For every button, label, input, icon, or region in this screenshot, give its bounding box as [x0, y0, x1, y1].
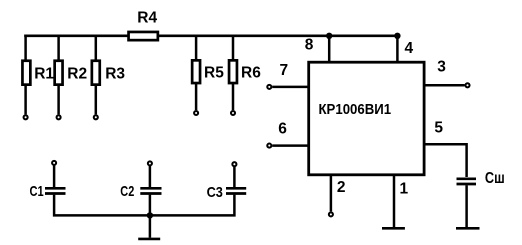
wire: ground drop — [149, 215, 152, 237]
ground bar: Cш — [456, 227, 480, 230]
svg-text:R3: R3 — [105, 66, 125, 83]
ground — [138, 238, 160, 241]
IC U1 КР1006ВИ1 (555 timer) — [309, 62, 424, 175]
terminal: open circle below R3 — [94, 115, 98, 119]
terminal: pin 6 — [267, 144, 271, 148]
svg-text:R5: R5 — [204, 64, 224, 81]
svg-text:R1: R1 — [34, 66, 54, 83]
wire: top supply rail — [24, 34, 397, 37]
pin 7 wire — [272, 86, 309, 89]
svg-text:5: 5 — [434, 120, 443, 137]
pin 4 wire (rail to IC top) — [396, 36, 399, 61]
terminal: pin 3 — [465, 83, 469, 87]
svg-text:4: 4 — [405, 40, 414, 57]
capacitor C2 — [140, 166, 161, 194]
terminal: pin 2 — [329, 212, 333, 216]
terminal: open circle below R1 — [24, 115, 28, 119]
terminal: C3 top — [232, 162, 236, 166]
resistor R6 — [229, 35, 237, 111]
svg-text:1: 1 — [400, 181, 409, 198]
svg-text:C1: C1 — [30, 183, 44, 200]
pin 3 wire — [424, 84, 464, 87]
pin 6 wire — [272, 144, 309, 147]
junction: pin 4 at rail end — [394, 33, 400, 39]
svg-text:8: 8 — [305, 36, 314, 53]
terminal: open circle below R5 — [194, 111, 198, 115]
svg-text:КР1006ВИ1: КР1006ВИ1 — [319, 102, 392, 118]
junction: C2 / ground node — [147, 212, 153, 218]
resistor R1 — [22, 35, 30, 115]
terminal: C1 top — [52, 161, 56, 165]
resistor R2 — [55, 35, 63, 115]
terminal: pin 7 — [267, 85, 271, 89]
svg-text:C2: C2 — [120, 183, 134, 200]
resistor R3 — [92, 35, 100, 115]
svg-text:Сш: Сш — [485, 170, 505, 187]
resistor R5 — [192, 35, 200, 111]
terminal: open circle below R6 — [231, 111, 235, 115]
capacitor Cш — [457, 179, 477, 184]
pin 1 wire — [393, 175, 396, 227]
svg-text:6: 6 — [278, 121, 287, 138]
terminal: C2 top — [148, 161, 152, 165]
capacitor C3 — [226, 167, 246, 194]
wire: C2 lead to bus — [149, 195, 152, 216]
svg-text:R2: R2 — [67, 66, 87, 83]
svg-text:С3: С3 — [207, 184, 223, 201]
ground bar: pin 1 — [382, 227, 405, 230]
svg-text:7: 7 — [280, 62, 289, 79]
pin 8 wire (rail to IC top) — [328, 36, 331, 61]
svg-text:3: 3 — [437, 58, 446, 75]
junction: pin 8 on rail — [326, 33, 332, 39]
wire: bottom bus C1-C2-C3 — [54, 195, 234, 216]
capacitor C1 — [45, 166, 66, 194]
svg-text:2: 2 — [337, 179, 346, 196]
wire: Cш to bottom bar — [465, 185, 468, 227]
svg-text:R4: R4 — [137, 10, 157, 27]
terminal: open circle below R2 — [57, 115, 61, 119]
resistor R4 (in series with top rail) — [129, 32, 158, 40]
pin 2 wire — [330, 175, 333, 211]
pin 5 wire (to Cш) — [424, 144, 467, 177]
svg-text:R6: R6 — [241, 64, 261, 81]
